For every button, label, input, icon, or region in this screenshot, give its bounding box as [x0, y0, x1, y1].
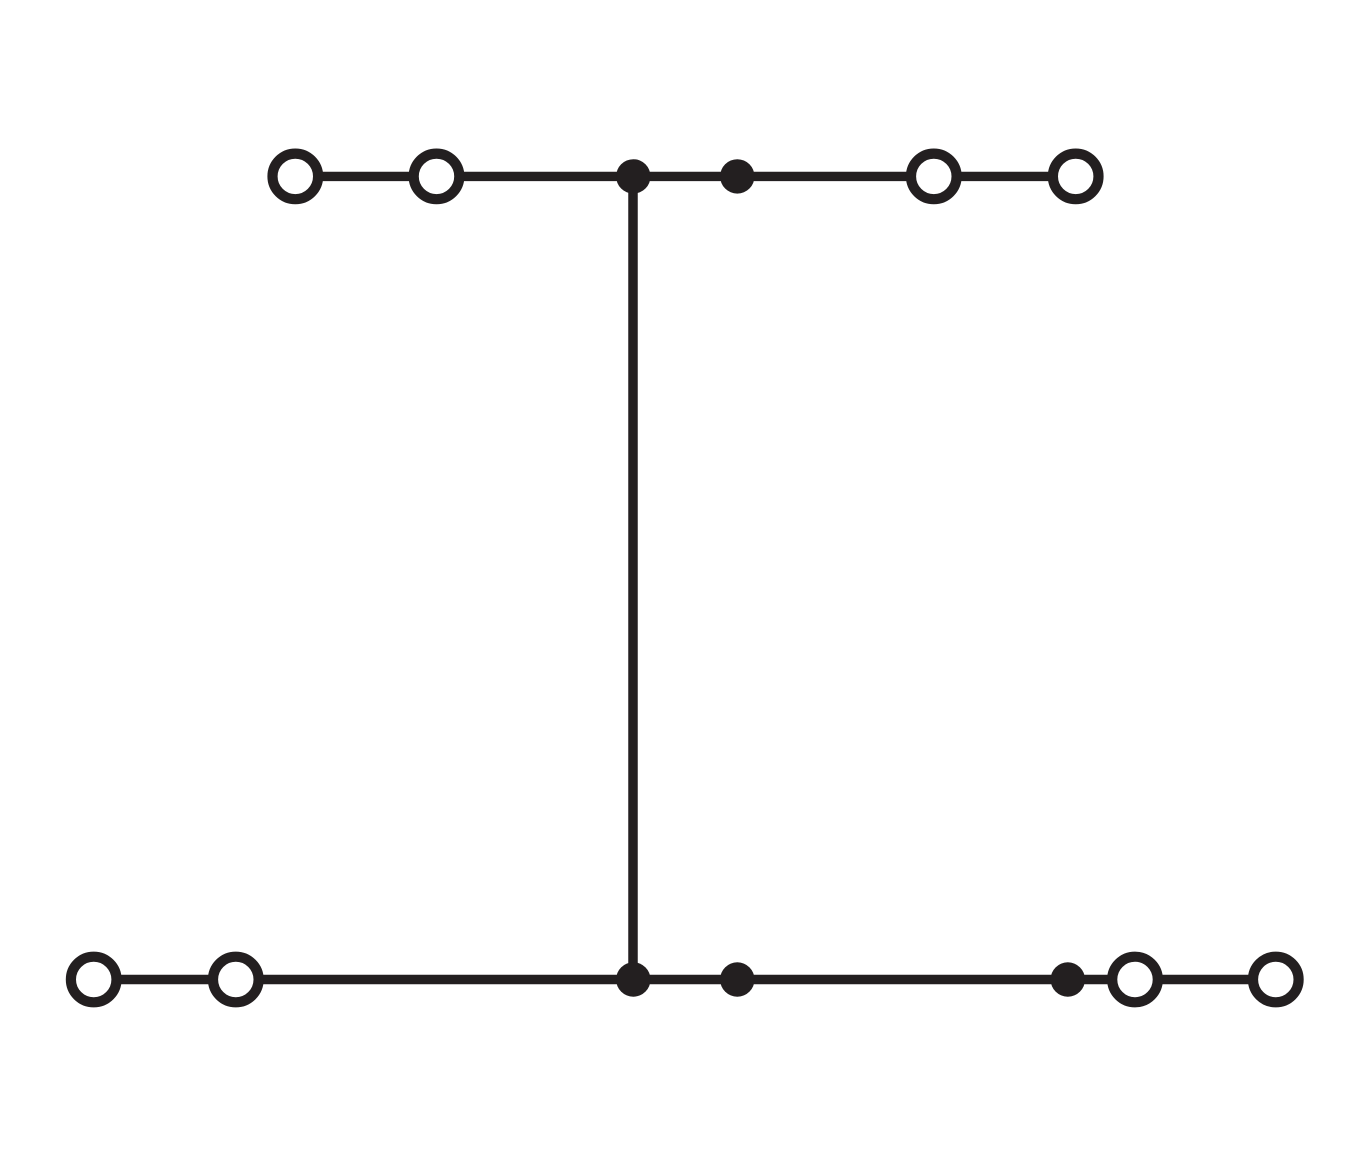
- junction: top rail commoning node: [720, 159, 754, 193]
- wire: top rail horizontal: [295, 172, 1075, 181]
- terminal: bottom rail clamp 4 (open circle): [1253, 957, 1299, 1003]
- junction: top rail node at vertical jumper: [616, 159, 650, 193]
- junction: bottom rail commoning node: [720, 962, 754, 996]
- terminal: top rail clamp 3 (open circle): [911, 154, 957, 200]
- terminal: bottom rail clamp 3 (open circle): [1112, 957, 1158, 1003]
- terminal: top rail clamp 2 (open circle): [414, 154, 460, 200]
- terminal: bottom rail clamp 1 (open circle): [71, 957, 117, 1003]
- terminal: top rail clamp 1 (open circle): [273, 154, 319, 200]
- junction: bottom rail node at vertical jumper: [616, 962, 650, 996]
- wire: bottom rail horizontal: [94, 975, 1276, 984]
- junction: bottom rail node before clamp 3: [1051, 962, 1085, 996]
- terminal: top rail clamp 4 (open circle): [1053, 154, 1099, 200]
- terminal: bottom rail clamp 2 (open circle): [213, 957, 259, 1003]
- wire: vertical jumper connecting top and bottom rails: [628, 176, 638, 979]
